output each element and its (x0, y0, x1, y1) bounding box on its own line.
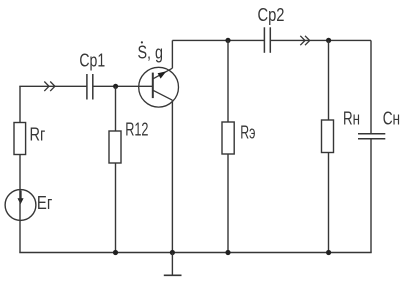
wire: Rn branch upper (top rail down to Rn top) (328, 40, 330, 120)
signal-direction marker (double chevron) on input wire (44, 82, 55, 92)
node: junction dot R12 / bottom rail (113, 250, 118, 255)
wire: Cn bottom plate down to bottom rail right corner (370, 139, 372, 253)
signal-direction marker (double chevron) on output wire (300, 36, 309, 45)
node: base node (junction dot after Cp1) (113, 84, 118, 89)
wire: left branch vertical, corner down to Rg top (19, 86, 21, 122)
ground (171, 253, 173, 276)
svg-text:Cp2: Cp2 (258, 5, 285, 25)
resistor R12 (109, 131, 121, 163)
svg-text:Rэ: Rэ (240, 122, 255, 142)
transistor VT1 (emitter follower) (139, 67, 179, 107)
wire: top rail from emitter to Cp2 left plate (172, 39, 264, 41)
wire: Cp1 right plate to transistor base bar (93, 85, 153, 87)
source Eг (sine/EMF source circle with arrow) (5, 190, 36, 221)
svg-text:Rг: Rг (30, 125, 46, 145)
node: junction dot Rn / bottom rail (326, 250, 331, 255)
node: junction dot top rail / Rn branch (326, 38, 331, 43)
svg-text:Cн: Cн (383, 108, 400, 128)
wire: Re bottom to bottom rail (227, 154, 229, 253)
node: junction dot collector / ground rail (170, 250, 175, 255)
wire: input horizontal from left corner to Cp1 left plate (19, 85, 86, 87)
wire: R12 branch upper (base node down to R12 top) (115, 86, 117, 131)
resistor Rг (14, 123, 26, 155)
node: junction dot Re / bottom rail (225, 250, 230, 255)
svg-text:Eг: Eг (37, 193, 53, 213)
wire: Rn bottom to bottom rail (328, 153, 330, 253)
svg-text:S, g: S, g (138, 43, 164, 63)
svg-text:Rн: Rн (343, 108, 360, 128)
wire: R12 bottom to bottom rail (115, 163, 117, 253)
capacitor Cp1 (87, 74, 93, 100)
wire: collector lead down to bottom rail (171, 100, 173, 252)
resistor Rэ (222, 122, 234, 154)
wire: Cn branch upper (top rail corner down to Cn top plate) (370, 40, 372, 133)
svg-text:Cp1: Cp1 (79, 50, 105, 70)
wire: top rail from Cp2 right plate to right corner (270, 39, 371, 41)
capacitor Cн (358, 134, 385, 139)
svg-text:R12: R12 (125, 120, 148, 140)
wire: Rg bottom to Eg circle top (19, 155, 21, 190)
wire: Re branch upper (top rail down to Re top) (227, 40, 229, 122)
wire: bottom rail (19, 252, 371, 254)
capacitor Cp2 (264, 27, 270, 53)
resistor Rн (322, 120, 334, 153)
node: junction dot top rail / Re branch (225, 38, 230, 43)
wire: Eg circle through to bottom rail (19, 190, 21, 253)
wire: emitter lead up to top rail (171, 40, 173, 68)
